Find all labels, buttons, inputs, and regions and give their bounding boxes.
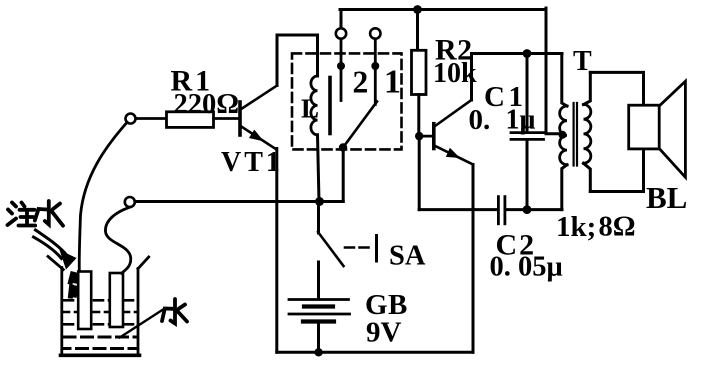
arrow 注水 pouring curve outer [36, 230, 68, 256]
water dashed line 5 [64, 347, 136, 350]
label 水 hand-drawn [162, 299, 187, 324]
arrow 注水 arrowhead [60, 250, 77, 270]
wire wavy to electrode 2 [105, 207, 130, 273]
speaker BL horn [659, 81, 685, 177]
svg-text:220Ω: 220Ω [174, 89, 240, 120]
wire base node down [418, 136, 421, 210]
wire curved to electrode 1 [79, 122, 127, 271]
transistor VT2 base bar [432, 124, 436, 149]
wire battery top lead [317, 262, 320, 299]
capacitor C2 plate left [497, 197, 500, 224]
inductor L relay coil [311, 76, 318, 135]
svg-text:1k;: 1k; [556, 211, 596, 243]
svg-text:L: L [301, 94, 319, 124]
transformer T primary winding [560, 106, 567, 165]
wire base node to VT2 [419, 135, 432, 138]
wire junction down to switch SA [317, 202, 320, 234]
node relay arm pivot dot [339, 143, 347, 151]
svg-text:1μ: 1μ [506, 105, 536, 136]
wire relay contact 2 [340, 40, 343, 101]
wire bottom ground rail [277, 351, 473, 354]
wire collector rail to transformer [472, 52, 563, 55]
wire relay contact 1 [374, 40, 377, 105]
beaker left wall [60, 268, 63, 355]
wire relay arm down lead [342, 148, 345, 202]
wire to C2 [419, 208, 497, 211]
wire C1 top lead [526, 54, 529, 132]
wire secondary bottom lead [584, 163, 591, 191]
relay core bar [328, 78, 332, 134]
arrow 注水 pouring curve inner [34, 237, 62, 259]
transformer T secondary winding [584, 105, 591, 164]
wire R2 bottom lead [417, 95, 420, 137]
wire center-tap drop from rail to transformer tap [546, 8, 562, 134]
transistor VT1 emitter arrowhead [249, 130, 264, 142]
svg-text:SA: SA [389, 241, 426, 272]
wire VT2 collector up [470, 54, 473, 101]
capacitor C1 plate bottom [511, 138, 544, 141]
relay terminal circle right [370, 28, 380, 38]
capacitor C2 plate right [503, 197, 506, 224]
relay dashed enclosure box [292, 53, 402, 149]
wire top supply rail [340, 8, 546, 11]
resistor R1 body [167, 112, 214, 128]
speaker BL body [629, 105, 660, 149]
transistor VT1 collector stroke [241, 86, 278, 110]
water stream marks [71, 274, 77, 296]
wire circle to R1 [136, 117, 167, 120]
wire battery bottom lead [317, 322, 320, 353]
svg-text:VT1: VT1 [221, 147, 283, 178]
water dashed line 4 [64, 336, 136, 339]
node top-rail junction dot [413, 5, 422, 14]
beaker right wall [137, 269, 140, 355]
node VT2 base dot [415, 132, 423, 140]
node contact 2 dot [337, 62, 345, 70]
wire electrode terminal to relay common [135, 200, 343, 203]
wire VT2 emitter down [472, 165, 475, 353]
wire R2 top lead [416, 10, 419, 51]
relay terminal circle left [336, 28, 346, 38]
terminal circle upper electrode [126, 114, 136, 124]
battery GB plate short 1 [304, 304, 333, 308]
relay switch arm [343, 102, 377, 148]
beaker bottom [61, 353, 140, 357]
transistor VT1 emitter stroke [241, 126, 277, 150]
capacitor C1 plate top [511, 131, 544, 134]
switch SA actuator dashes [345, 246, 373, 249]
switch SA blade [318, 232, 344, 266]
wire speaker loop top [590, 72, 643, 191]
node C1 top junction dot [523, 49, 532, 58]
transistor VT2 emitter arrowhead [446, 148, 460, 158]
battery GB plate long 1 [289, 298, 349, 301]
terminal circle lower electrode [125, 197, 135, 207]
svg-text:T: T [573, 46, 592, 77]
transformer T core line 2 [576, 103, 578, 166]
water dashed line 3 [64, 323, 136, 326]
svg-text:1: 1 [384, 64, 401, 101]
wire C1 bottom lead [526, 141, 529, 210]
beaker left rim [48, 257, 63, 270]
switch SA actuator bar [375, 236, 378, 262]
water dashed line 2 [64, 311, 136, 314]
water dashed line 1 [64, 299, 136, 302]
node battery negative dot [314, 348, 322, 356]
wire C2 to transformer bottom [506, 208, 562, 211]
wire relay coil bottom lead [318, 135, 320, 202]
svg-text:0.: 0. [469, 104, 491, 136]
svg-text:0. 05μ: 0. 05μ [490, 252, 563, 283]
transistor VT2 collector stroke [434, 100, 471, 127]
wire transformer primary top lead [562, 54, 567, 107]
node transformer center tap dot [559, 131, 567, 139]
beaker right rim [138, 257, 149, 269]
wire secondary top lead [584, 72, 591, 104]
pointer line for 水 label [120, 310, 163, 338]
resistor R2 body [412, 50, 427, 94]
node contact 1 dot [371, 62, 379, 70]
wire VT1 emitter down to ground rail [275, 149, 278, 353]
transformer T core line 1 [572, 103, 574, 166]
svg-text:2: 2 [353, 65, 369, 100]
wire stub from rail to relay terminal [340, 10, 343, 29]
wire R1 to VT1 base [214, 117, 239, 120]
electrode 2 [110, 273, 123, 327]
battery GB plate long 2 [289, 313, 350, 316]
node C1 bottom junction dot [523, 205, 532, 214]
wire VT1 collector to relay coil [277, 35, 318, 86]
transistor VT1 base bar [238, 102, 242, 135]
battery GB plate short 2 [303, 319, 334, 323]
wire transformer primary bottom lead [562, 165, 567, 210]
transistor VT2 emitter stroke [434, 146, 473, 165]
svg-text:9V: 9V [366, 317, 402, 349]
svg-text:10k: 10k [433, 58, 477, 89]
svg-text:BL: BL [646, 180, 687, 215]
label 注水 hand-drawn [8, 201, 64, 226]
node main junction dot [315, 197, 324, 206]
electrode 1 [78, 272, 91, 330]
svg-text:8Ω: 8Ω [599, 212, 636, 243]
